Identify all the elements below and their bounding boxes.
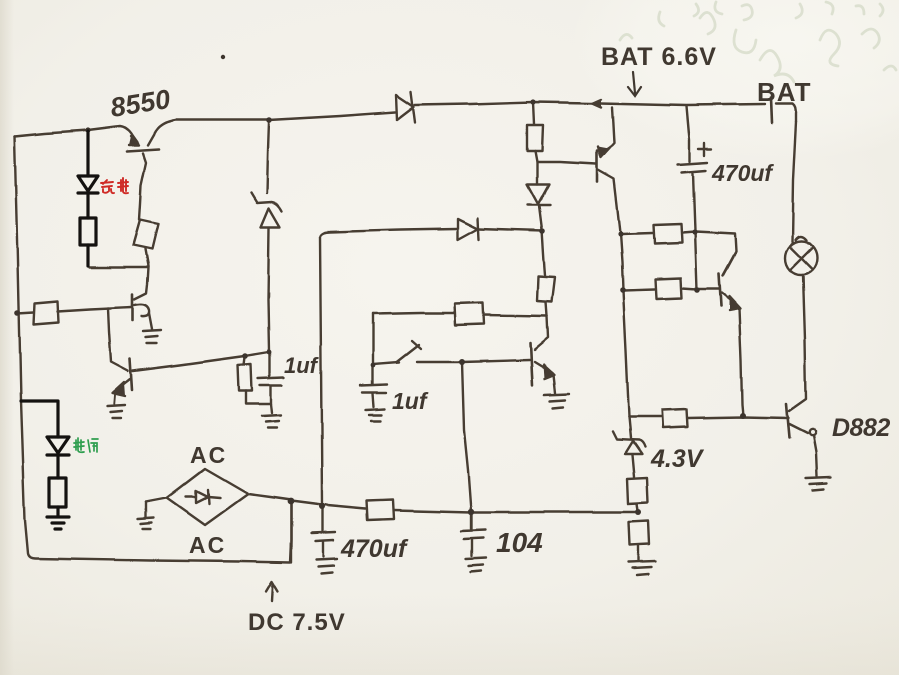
svg-text:D882: D882 [832,414,890,442]
svg-text:BAT 6.6V: BAT 6.6V [601,43,717,71]
svg-text:DC 7.5V: DC 7.5V [248,609,346,636]
svg-text:1uf: 1uf [392,388,429,414]
svg-text:104: 104 [496,527,543,558]
svg-text:470uf: 470uf [340,535,409,563]
svg-text:AC: AC [189,532,226,558]
svg-text:BAT: BAT [757,77,812,107]
svg-text:4.3V: 4.3V [650,445,705,473]
svg-text:1uf: 1uf [284,353,320,378]
svg-text:470uf: 470uf [711,160,774,186]
svg-text:AC: AC [190,442,227,468]
